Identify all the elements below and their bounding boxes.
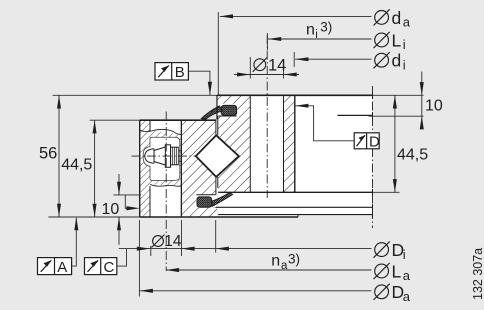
grease nipple dome chord <box>153 149 155 164</box>
bolt hole wall lower (inner ring) <box>149 186 151 217</box>
svg-text:n: n <box>271 252 280 269</box>
svg-text:C: C <box>104 259 115 276</box>
dim 10 left line lower <box>118 217 120 245</box>
grease horizontal centerline <box>132 155 197 157</box>
dim d_i extension <box>293 52 295 67</box>
datum D leader <box>295 106 354 141</box>
upper seal body <box>221 105 236 115</box>
svg-text:n: n <box>306 21 315 38</box>
dim L_i extension <box>266 33 268 50</box>
dim 56 line <box>58 95 60 217</box>
dim d_i leader <box>295 58 371 60</box>
right ring bottom face ext right <box>373 191 400 193</box>
label O14 top <box>253 58 267 72</box>
lower visible step lines <box>213 206 373 208</box>
axis solid ticks <box>372 92 374 99</box>
grease nipple pilot step <box>179 150 181 152</box>
upper seal pocket bottom line <box>218 115 236 117</box>
svg-text:132 307a: 132 307a <box>471 248 484 300</box>
bottom face thick <box>140 216 298 218</box>
svg-text:10: 10 <box>102 201 120 218</box>
axis centerline <box>372 86 374 228</box>
upper seal lip <box>201 106 222 119</box>
grease nipple thread lines <box>171 147 173 165</box>
grease nipple cone <box>154 147 165 151</box>
wedge end tick <box>297 215 299 217</box>
outer(right) ring hatch with bolt hole <box>217 95 295 192</box>
svg-text:A: A <box>57 259 67 276</box>
hole centerline inner ring <box>165 112 167 272</box>
lower seal pocket <box>196 195 216 208</box>
datum D box <box>354 133 379 149</box>
right ring left face <box>216 95 218 119</box>
dim O14 top line <box>234 74 299 76</box>
dim 10 right line <box>421 72 423 128</box>
grease nipple dome <box>145 149 154 164</box>
hole centerline right ring <box>266 35 268 198</box>
svg-text:d: d <box>392 8 402 28</box>
label dia d_a <box>374 9 390 25</box>
wavy break line top <box>140 129 181 134</box>
svg-text:56: 56 <box>39 144 57 162</box>
svg-text:L: L <box>392 261 402 281</box>
grease nipple pocket (white) <box>143 137 180 180</box>
inner ring breakout hatch <box>150 131 181 186</box>
gap walls above roller <box>215 119 217 135</box>
dim D_a line <box>140 290 372 292</box>
dim L_a / n_a line <box>166 269 372 271</box>
datum C leader <box>117 249 127 266</box>
svg-text:3): 3) <box>320 20 332 35</box>
gap walls below roller <box>215 177 217 195</box>
svg-text:B: B <box>175 64 185 81</box>
bolt hole wall upper (inner ring) <box>149 120 151 131</box>
svg-text:a: a <box>403 15 411 30</box>
dim O14 bottom right extension <box>181 220 183 256</box>
node middle ring white base <box>181 120 217 217</box>
dim O14 bottom + D_i line <box>119 248 372 250</box>
lower seal pocket top line <box>196 194 215 196</box>
svg-text:i: i <box>315 29 318 41</box>
dim O14 top extensions <box>249 57 251 79</box>
bore recess edge (partial) <box>338 114 373 116</box>
dim O14 bottom left extension <box>150 246 152 256</box>
left block left face <box>139 120 141 217</box>
dim L_i leader <box>268 38 372 40</box>
svg-text:a: a <box>281 260 288 272</box>
upper seal pocket <box>219 104 238 116</box>
label O14 bottom <box>152 235 165 248</box>
label dia L_a <box>374 263 390 279</box>
svg-text:D: D <box>369 134 380 151</box>
svg-text:44,5: 44,5 <box>397 147 428 164</box>
left block / middle ring joint <box>180 120 182 217</box>
datum A box <box>38 258 72 275</box>
node left block white base <box>140 120 182 217</box>
svg-text:44,5: 44,5 <box>61 156 92 173</box>
top face line right ring + extensions <box>53 94 218 96</box>
node bore view white area <box>295 95 373 192</box>
node right ring white base <box>217 95 295 192</box>
datum B box <box>155 63 188 80</box>
svg-text:i: i <box>403 37 406 52</box>
recess leader <box>125 195 130 208</box>
grease nipple shank <box>171 146 179 148</box>
datum B leader <box>188 71 210 95</box>
dim 10 right extension lower <box>369 115 424 117</box>
middle ring hatch <box>182 120 217 217</box>
svg-text:14: 14 <box>268 56 286 74</box>
datum A leader <box>72 218 77 266</box>
datum C box <box>85 258 117 275</box>
bore face <box>294 95 296 192</box>
right ring bottom face <box>218 191 372 193</box>
svg-text:i: i <box>403 247 406 262</box>
dim 44,5 right line <box>394 95 396 192</box>
dim D_i extension <box>215 220 217 253</box>
svg-text:14: 14 <box>164 233 182 250</box>
svg-text:a: a <box>403 268 411 283</box>
svg-text:L: L <box>392 30 402 50</box>
dim 10 left extension <box>113 194 140 196</box>
label dia d_i <box>374 52 390 68</box>
label dia D_i <box>374 242 390 258</box>
svg-text:10: 10 <box>425 98 443 115</box>
dim 44,5 left line <box>94 120 96 217</box>
bottom face extension left <box>48 216 139 218</box>
svg-text:a: a <box>403 289 411 304</box>
lower seal body <box>197 197 212 207</box>
label dia L_i <box>374 32 390 48</box>
dim d_a extension <box>217 12 219 95</box>
svg-text:3): 3) <box>288 251 300 266</box>
node lower white bands <box>218 192 372 214</box>
label dia D_a <box>374 284 390 300</box>
grease nipple flange <box>165 145 170 168</box>
roller (diamond) <box>196 135 239 177</box>
inner ring left band hatch <box>140 120 150 217</box>
bolt hole walls right ring <box>249 95 251 192</box>
dim 10 left line upper <box>118 174 120 195</box>
dim 44,5 left extension <box>90 119 140 121</box>
svg-text:d: d <box>392 51 402 71</box>
dim D_a extension <box>138 220 140 297</box>
left block top face <box>140 119 216 121</box>
svg-text:i: i <box>403 57 406 72</box>
dim d_a leader <box>220 15 372 17</box>
lower seal lip <box>212 193 233 207</box>
wavy break line bottom <box>150 184 181 186</box>
